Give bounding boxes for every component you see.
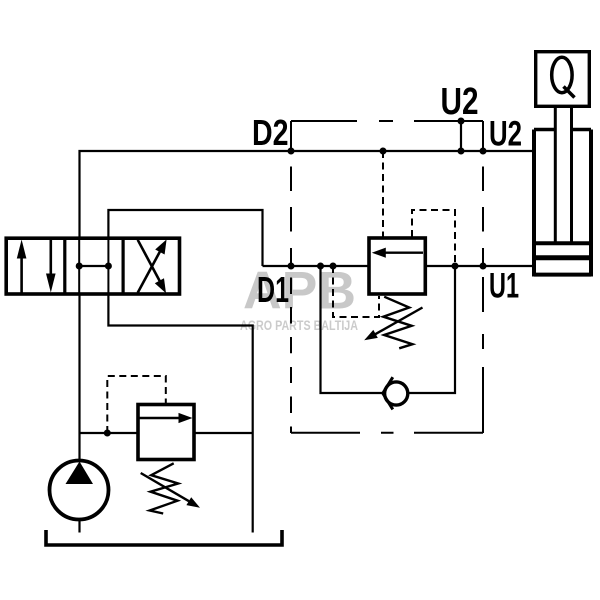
directional valve left section arrows xyxy=(17,240,56,294)
relief valve flow arrow xyxy=(140,413,193,423)
svg-text:D1: D1 xyxy=(257,269,289,310)
relief valve spring xyxy=(150,463,179,513)
svg-text:AGRO PARTS BALTIJA: AGRO PARTS BALTIJA xyxy=(240,318,358,333)
flow meter Q box xyxy=(536,52,590,107)
svg-text:U2: U2 xyxy=(489,115,522,154)
wire check valve bypass left leg xyxy=(321,266,385,393)
cylinder rod xyxy=(555,108,571,243)
counterbalance valve flow arrow xyxy=(372,248,423,258)
enclosure boundary top edge xyxy=(291,120,483,122)
wire U2 port stub xyxy=(460,121,462,151)
directional valve body xyxy=(6,238,179,294)
pilot line counterbalance from U1 (dashed) xyxy=(412,210,455,265)
pump flow triangle xyxy=(66,462,94,485)
wire pump line to relief valve xyxy=(80,432,138,434)
tank xyxy=(46,530,282,545)
wire counterbalance valve to U1 xyxy=(427,265,534,267)
flow meter Q letter xyxy=(552,57,575,97)
enclosure boundary right edge xyxy=(482,121,484,433)
directional valve centre section ports xyxy=(79,238,108,294)
pilot line counterbalance from U2 line (dashed) xyxy=(382,151,384,237)
relief valve body xyxy=(138,405,194,460)
cylinder body xyxy=(534,130,591,277)
check valve seat xyxy=(383,377,393,409)
wire valve T port to tank return xyxy=(108,296,252,533)
directional valve crossover arrows xyxy=(138,239,167,293)
pilot line relief valve (dashed) xyxy=(107,376,166,433)
cylinder piston xyxy=(534,243,591,274)
svg-text:U1: U1 xyxy=(489,267,519,306)
wire D1 line to counterbalance valve xyxy=(263,265,369,267)
wire valve port B riser xyxy=(108,210,262,266)
wire D2 to U2 main line xyxy=(80,151,534,238)
svg-text:U2: U2 xyxy=(441,81,479,123)
check valve circle xyxy=(385,382,408,405)
counterbalance valve body xyxy=(369,238,425,294)
wire relief valve drain xyxy=(195,432,253,434)
counterbalance valve adjustment arrow xyxy=(364,308,422,341)
relief valve adjustment arrow xyxy=(141,473,200,508)
pump xyxy=(50,461,109,520)
enclosure boundary bottom edge xyxy=(291,432,483,434)
wire check valve bypass right leg xyxy=(409,266,456,393)
svg-text:D2: D2 xyxy=(252,112,289,153)
pilot line counterbalance spring side (dashed) xyxy=(333,266,379,317)
wire pump to tank xyxy=(78,520,80,533)
counterbalance valve spring xyxy=(383,297,412,349)
wire valve P port to pump xyxy=(78,296,80,461)
enclosure boundary left edge xyxy=(290,121,292,433)
